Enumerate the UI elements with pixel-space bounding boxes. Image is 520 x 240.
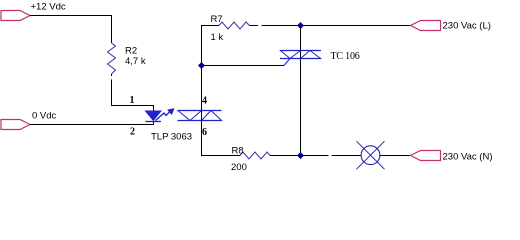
wire gate of TC106: [202, 65, 285, 67]
resistor R7: [219, 22, 250, 29]
wire R2 lead stub: [111, 74, 113, 76]
junction node R7/TC106: [297, 22, 304, 29]
connector 230 Vac (N): [411, 151, 441, 161]
svg-text:+12 Vdc: +12 Vdc: [31, 2, 66, 13]
resistor R2: [108, 43, 116, 74]
svg-text:1: 1: [130, 95, 135, 106]
svg-text:TC 106: TC 106: [331, 51, 360, 62]
wire R2 to opto pin1: [112, 80, 154, 112]
lamp DS1: [357, 141, 385, 169]
connector 230 Vac (L): [411, 21, 441, 31]
svg-text:230 Vac (L): 230 Vac (L): [443, 21, 491, 32]
junction node gate: [198, 62, 205, 69]
wire opto pin6 to R8: [202, 121, 241, 156]
svg-text:4: 4: [202, 96, 207, 107]
opto-coupler U1 TLP 3063 LED: [146, 111, 162, 122]
svg-text:2: 2: [130, 127, 135, 138]
svg-text:4,7 k: 4,7 k: [125, 56, 146, 67]
svg-text:1 k: 1 k: [211, 32, 224, 43]
wire 0V to opto pin2: [30, 122, 154, 125]
triac TC 106: [280, 51, 321, 66]
svg-text:R8: R8: [232, 146, 244, 157]
wire R8 to lamp: [270, 155, 329, 157]
connector 0 Vdc: [1, 120, 30, 130]
resistor R8: [240, 152, 270, 159]
junction node bottom rail: [297, 152, 304, 159]
wire +12V to R2: [30, 16, 112, 44]
svg-text:R2: R2: [125, 46, 137, 57]
svg-text:TLP 3063: TLP 3063: [151, 132, 192, 143]
LED emission arrow: [156, 109, 175, 121]
wire lamp to connector N: [380, 155, 411, 157]
svg-text:R7: R7: [211, 14, 223, 25]
svg-text:6: 6: [202, 127, 207, 138]
wire R7 left vertical / opto pin4: [202, 26, 220, 121]
wire R7 to top rail: [250, 25, 259, 27]
connector +12 Vdc: [1, 11, 30, 21]
svg-text:230 Vac (N): 230 Vac (N): [443, 152, 493, 163]
opto-coupler photo-triac: [178, 111, 222, 121]
wire top rail to connector L: [262, 25, 411, 27]
svg-text:0 Vdc: 0 Vdc: [32, 111, 57, 122]
wire TC106 anode: [300, 26, 302, 156]
svg-text:200: 200: [231, 162, 247, 173]
